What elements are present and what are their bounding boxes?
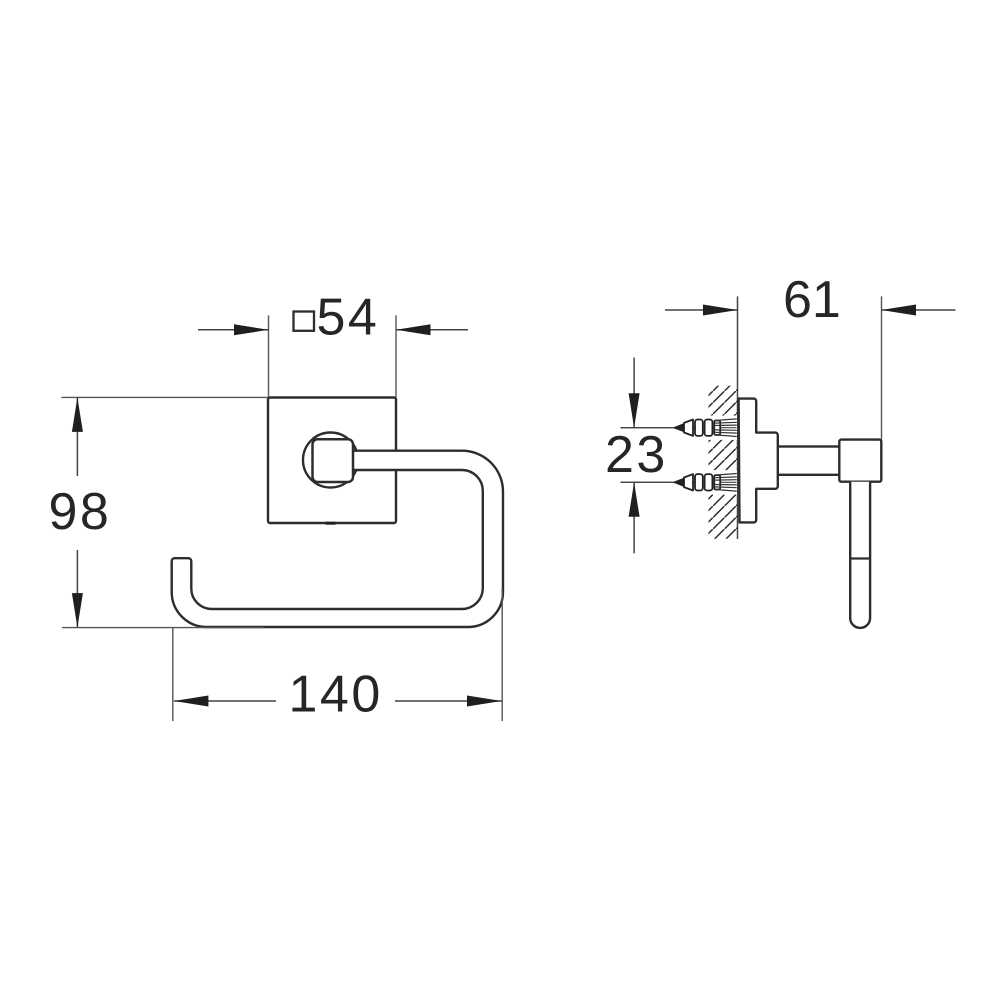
svg-text:23: 23 xyxy=(605,426,668,484)
dimension 61: right extension line xyxy=(881,296,883,439)
dimension 54: left arrow xyxy=(198,329,269,331)
dimension 98: top extension line xyxy=(61,396,268,398)
svg-text:140: 140 xyxy=(289,666,383,724)
plate profile with hub xyxy=(739,399,778,523)
arm (side) xyxy=(778,447,840,475)
svg-text:98: 98 xyxy=(49,483,112,541)
wall face line xyxy=(737,296,739,539)
svg-text:61: 61 xyxy=(783,271,841,329)
dimension 140: extension lines xyxy=(172,628,174,721)
roll holder arm (bent tube outline) xyxy=(172,451,503,627)
center tick on plate bottom edge xyxy=(326,522,336,525)
dimension 54: right arrow xyxy=(396,329,468,331)
dimension 23: lower arrow xyxy=(633,482,635,553)
dimension 23: upper arrow xyxy=(633,358,635,428)
dimension 23: reference lines xyxy=(621,427,673,429)
hub square on circle xyxy=(313,439,354,482)
wall plate square xyxy=(268,398,396,524)
mounting circle xyxy=(303,433,358,488)
dimension 54: extension lines xyxy=(268,315,270,397)
hanging rod xyxy=(850,482,870,628)
dimension 61: right arrow xyxy=(882,309,956,311)
dimension 98: bottom extension line xyxy=(62,627,264,629)
screw lower xyxy=(621,470,738,494)
corner block xyxy=(839,440,881,482)
dimension 140: dimension line with arrows xyxy=(174,700,276,702)
dimension 98: dimension line with arrows xyxy=(76,397,78,476)
rod divider line xyxy=(850,557,870,559)
dimension 54: square symbol xyxy=(294,312,315,331)
screw upper xyxy=(621,416,738,440)
dimension 61: left arrow xyxy=(665,309,738,311)
svg-text:54: 54 xyxy=(317,289,380,347)
wall hatching xyxy=(709,386,738,539)
